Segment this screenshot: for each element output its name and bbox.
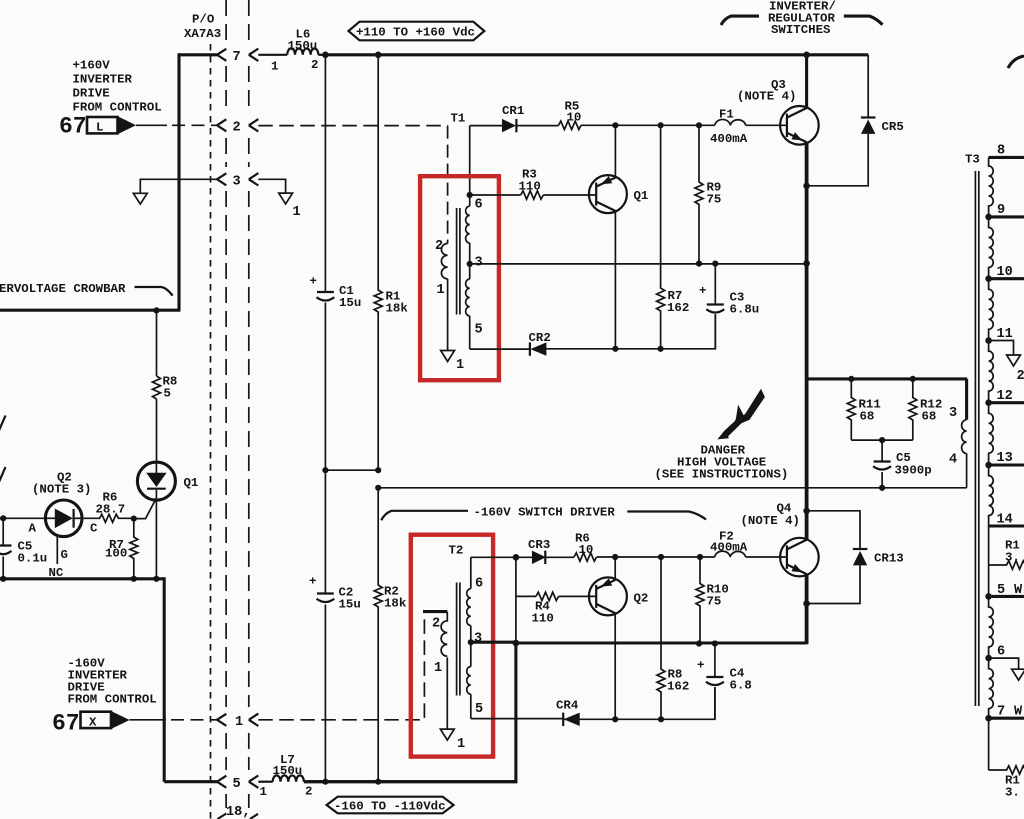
transistor Q4 xyxy=(741,502,819,577)
resistor R11 68 xyxy=(847,379,881,440)
svg-text:15u: 15u xyxy=(339,598,361,612)
junction dot R8-162 bottom xyxy=(658,716,664,722)
svg-text:2: 2 xyxy=(432,617,440,632)
diode CR5 xyxy=(861,118,904,135)
wire Q1 collector up xyxy=(614,125,616,178)
svg-text:1: 1 xyxy=(434,661,442,676)
svg-text:2: 2 xyxy=(1017,369,1024,384)
svg-text:(SEE INSTRUCTIONS): (SEE INSTRUCTIONS) xyxy=(655,468,789,482)
pin 7 bracket and arrow xyxy=(217,49,258,65)
wire row y263.6 xyxy=(470,263,807,265)
junction dot T2 pin3 xyxy=(468,639,474,645)
connector center dashed line xyxy=(210,44,212,819)
wire F2 to Q4 base xyxy=(746,556,787,558)
wire CR3anode down to row643 xyxy=(515,596,517,643)
svg-text:+: + xyxy=(699,284,706,298)
wire Q1 emitter down xyxy=(614,211,616,349)
T3 pin 8 wire xyxy=(989,144,1024,159)
wire Q3 collector up xyxy=(805,55,808,109)
svg-text:1: 1 xyxy=(457,737,465,752)
fuse F2 400mA xyxy=(710,530,748,558)
pin 5 bracket and arrow xyxy=(217,776,258,793)
connector right column dashed xyxy=(248,0,250,808)
T2 core xyxy=(457,583,460,696)
pin 3 wire right to ground xyxy=(258,179,285,193)
svg-text:15u: 15u xyxy=(339,296,361,310)
red highlight box T2 xyxy=(411,535,493,757)
svg-text:0.1u: 0.1u xyxy=(18,552,48,566)
junction dot T1 pin6 xyxy=(467,192,473,198)
+160V INVERTER DRIVE FROM CONTROL label xyxy=(73,59,162,115)
corner hook top right xyxy=(1008,56,1024,68)
junction dot Q1 top xyxy=(612,122,618,128)
svg-text:ERVOLTAGE CROWBAR: ERVOLTAGE CROWBAR xyxy=(0,282,126,296)
T3 right winding 10-11 xyxy=(989,279,994,341)
svg-text:150u: 150u xyxy=(288,39,318,53)
junction dot R8-162 top xyxy=(658,554,664,560)
svg-text:3: 3 xyxy=(474,632,482,647)
wire Q1 cathode down to row 579 xyxy=(155,499,157,579)
wire diagonal R6 junction to Q1 xyxy=(134,499,156,519)
wire row y579 xyxy=(0,577,164,580)
T3 pin 13 wire xyxy=(985,451,1024,468)
svg-text:6: 6 xyxy=(475,577,483,592)
T3 pin 10 wire xyxy=(985,265,1024,282)
svg-text:7: 7 xyxy=(997,705,1005,720)
junction dot CR3 anode xyxy=(513,554,520,561)
svg-text:CR13: CR13 xyxy=(874,552,904,566)
svg-text:110: 110 xyxy=(519,180,541,194)
wire CR3anode to R4 xyxy=(516,557,536,596)
junction dot bridge left xyxy=(322,467,328,473)
svg-text:X: X xyxy=(89,715,97,729)
svg-text:1: 1 xyxy=(456,358,464,373)
svg-text:T1: T1 xyxy=(451,112,466,126)
wire CR5 to Q3 emitter xyxy=(807,134,869,186)
resistor R13 bottom partial xyxy=(989,766,1024,800)
T2 secondary winding 6-3 xyxy=(467,589,471,626)
resistor R6 28.7 xyxy=(82,491,134,523)
svg-text:3.: 3. xyxy=(1005,786,1020,800)
header -160V SWITCH DRIVER xyxy=(381,506,706,521)
T2 secondary bottom lead xyxy=(470,694,472,718)
svg-text:10: 10 xyxy=(997,265,1013,280)
T3 pin 5 wire xyxy=(985,583,1024,600)
svg-text:W: W xyxy=(1014,583,1023,598)
diode CR3 xyxy=(528,538,550,564)
resistor R12 68 xyxy=(909,379,943,440)
svg-text:12: 12 xyxy=(997,389,1013,404)
svg-text:CR2: CR2 xyxy=(529,331,551,345)
junction dot crowbar R8 xyxy=(153,307,159,313)
junction dot mid rail left xyxy=(375,485,381,491)
svg-text:67: 67 xyxy=(59,114,87,140)
svg-text:CR4: CR4 xyxy=(556,699,579,713)
svg-text:3: 3 xyxy=(475,256,483,271)
wire thick L to pin5 row xyxy=(304,643,516,782)
svg-text:CR5: CR5 xyxy=(882,120,904,134)
T1 secondary top lead xyxy=(469,126,471,195)
resistor R5 10 xyxy=(559,100,582,130)
svg-text:5: 5 xyxy=(475,323,483,338)
svg-text:XA7A3: XA7A3 xyxy=(184,27,221,41)
T3 pin 14 wire xyxy=(989,513,1024,528)
wire x164 to pin 5 bracket xyxy=(164,780,217,783)
ground T3 pin11 xyxy=(1007,355,1024,384)
svg-text:11: 11 xyxy=(997,327,1013,342)
svg-text:1: 1 xyxy=(293,205,301,220)
junction dot L6 out xyxy=(322,52,329,59)
T1 primary winding xyxy=(435,239,448,298)
T3 pin 11 wire to ground xyxy=(985,327,1013,355)
wire Q4 emitter down xyxy=(805,574,809,644)
wire R4 to Q2 base xyxy=(559,595,597,597)
wire left edge to Q2 anode xyxy=(0,517,46,519)
ground left of pin3 xyxy=(133,193,147,204)
T3 right winding 5-6 xyxy=(989,596,994,658)
connector left column dashed xyxy=(225,0,227,808)
T2 primary lead to ground xyxy=(446,657,448,728)
junction dot Q3 collector rail xyxy=(803,52,810,59)
junction dot Q2 emitter row719 xyxy=(612,716,618,722)
svg-text:SWITCHES: SWITCHES xyxy=(771,23,831,37)
wire +rail y54.8 xyxy=(325,53,868,56)
svg-text:P/O: P/O xyxy=(192,13,214,27)
svg-text:10: 10 xyxy=(579,543,594,557)
svg-text:5: 5 xyxy=(164,387,171,401)
svg-text:2: 2 xyxy=(311,58,318,72)
wire dashed pin1 to T2 xyxy=(258,612,424,720)
resistor R8 162 xyxy=(657,557,689,719)
wire pin7 to R13 bottom xyxy=(988,718,990,770)
svg-text:CR3: CR3 xyxy=(528,538,550,552)
svg-text:INVERTER: INVERTER xyxy=(73,73,133,87)
Q2 gate wire NC xyxy=(49,536,68,580)
svg-text:+: + xyxy=(697,659,704,673)
wire dashed pin2 to T1 xyxy=(258,125,447,127)
wire R8 branch vertical x156 xyxy=(156,310,158,376)
wire Q2 emitter down xyxy=(614,613,616,719)
svg-text:CR1: CR1 xyxy=(502,104,524,118)
ground T1 primary xyxy=(441,351,464,374)
svg-text:3900p: 3900p xyxy=(895,464,932,478)
svg-text:1: 1 xyxy=(260,785,267,799)
junction dot Q1 row579 xyxy=(153,576,159,582)
junction dot R1 top xyxy=(375,52,382,59)
resistor R1 18k xyxy=(374,55,408,470)
inductor L7 150u xyxy=(258,753,517,799)
resistor R7 162 xyxy=(657,125,690,348)
capacitor C1 15u xyxy=(310,275,362,311)
node 67 L input flag xyxy=(59,114,136,140)
svg-text:FROM CONTROL: FROM CONTROL xyxy=(73,101,162,115)
svg-text:162: 162 xyxy=(667,301,689,315)
svg-text:7: 7 xyxy=(233,50,241,65)
danger high voltage text xyxy=(655,444,789,482)
wire F1 to Q3 base xyxy=(746,124,787,126)
junction dot Q3 emitter CR5 xyxy=(803,183,810,190)
svg-text:3: 3 xyxy=(949,406,957,421)
junction dot C4 top xyxy=(712,640,718,646)
inductor L6 150u xyxy=(258,28,325,74)
svg-text:1: 1 xyxy=(437,283,445,298)
diode CR13 xyxy=(853,549,904,566)
svg-text:28.7: 28.7 xyxy=(96,503,126,517)
T1 primary lead to ground xyxy=(447,279,449,350)
wire mid rail y488 xyxy=(378,487,966,489)
T3 pin 12 wire xyxy=(985,389,1024,406)
junction dot T1 pin3 xyxy=(467,261,473,267)
wire pin14 link down xyxy=(988,526,990,596)
capacitor C5 3900p xyxy=(873,440,932,488)
junction dot R10 top xyxy=(697,554,703,560)
T1 secondary bottom lead xyxy=(469,316,471,349)
T3 right winding 13-14 xyxy=(989,465,994,526)
T3 pin 7 wire xyxy=(985,705,1024,722)
svg-text:6.8u: 6.8u xyxy=(730,303,760,317)
wire CR1 to R5 xyxy=(516,125,558,127)
T3 right winding 8-9 xyxy=(989,157,994,217)
svg-text:13: 13 xyxy=(997,451,1013,466)
wire T1 pin6 to R3 xyxy=(470,194,521,196)
svg-text:400mA: 400mA xyxy=(710,541,748,555)
slash wire stub lower left xyxy=(0,467,6,482)
resistor R6 10 xyxy=(574,532,597,562)
svg-text:110: 110 xyxy=(532,612,554,626)
junction dot C2 line bottom xyxy=(322,779,328,785)
flag -160 TO -110Vdc xyxy=(327,797,454,814)
svg-text:G: G xyxy=(61,548,68,562)
svg-text:3: 3 xyxy=(233,175,241,190)
resistor R7 100 xyxy=(105,519,138,579)
T3 pin 9 wire xyxy=(985,203,1024,220)
junction dot Q2 top xyxy=(612,554,618,560)
svg-text:1: 1 xyxy=(271,60,278,74)
danger lightning bolt xyxy=(717,389,765,440)
svg-text:DRIVE: DRIVE xyxy=(73,87,110,101)
wire C1 C2 line x325 xyxy=(324,55,326,782)
svg-text:L: L xyxy=(96,121,103,135)
svg-text:2: 2 xyxy=(305,785,312,799)
junction dot R11 top xyxy=(848,376,854,382)
ground right of pin3 xyxy=(279,193,293,204)
svg-text:68: 68 xyxy=(860,410,875,424)
wire crowbar row y310 xyxy=(0,309,180,312)
wire vertical x164 to pin5 xyxy=(163,577,166,781)
T3 right winding 11-12 xyxy=(989,341,994,403)
diode CR4 xyxy=(556,699,580,727)
wire CR13 to Q4 emitter xyxy=(807,565,860,603)
svg-text:8: 8 xyxy=(997,144,1005,159)
wire R3 to Q1 base xyxy=(543,194,596,196)
svg-text:18,: 18, xyxy=(226,805,250,819)
transistor Q3 xyxy=(737,78,819,145)
wire dashed 67L to pin 2 xyxy=(136,124,167,126)
wire bridge row y470 xyxy=(325,469,378,471)
red highlight box T1 xyxy=(420,176,499,380)
svg-text:T3: T3 xyxy=(965,153,980,167)
capacitor C2 15u xyxy=(309,575,361,612)
svg-text:6: 6 xyxy=(475,198,483,213)
resistor R3 110 xyxy=(519,168,544,200)
wire snubber row y440 xyxy=(851,439,913,441)
svg-text:4: 4 xyxy=(949,453,957,468)
svg-text:67: 67 xyxy=(52,711,80,737)
svg-text:75: 75 xyxy=(707,595,722,609)
svg-text:68: 68 xyxy=(922,410,937,424)
T1 primary dashed feed xyxy=(447,126,449,244)
svg-text:(NOTE 4): (NOTE 4) xyxy=(737,90,797,104)
diode CR2 xyxy=(529,331,551,356)
junction dot C3 top xyxy=(712,261,718,267)
ground T2 primary xyxy=(440,729,465,752)
junction dot R7-162 bottom xyxy=(658,346,664,352)
resistor R13 top partial xyxy=(989,539,1024,570)
svg-text:9: 9 xyxy=(997,203,1005,218)
svg-text:W: W xyxy=(1014,705,1023,720)
T2 secondary winding 3-5 xyxy=(467,626,471,695)
svg-text:FROM CONTROL: FROM CONTROL xyxy=(68,693,157,707)
ground T3 pin6 xyxy=(1012,669,1024,680)
SCR Q2 xyxy=(29,500,99,537)
svg-text:5: 5 xyxy=(475,702,483,717)
wire Q2 collector up xyxy=(614,557,616,580)
wire Q4 collector up xyxy=(805,379,809,540)
-160V INVERTER DRIVE FROM CONTROL label xyxy=(68,657,157,707)
svg-text:3.: 3. xyxy=(1005,551,1020,565)
svg-text:A: A xyxy=(29,522,37,536)
svg-text:2: 2 xyxy=(435,239,443,254)
T3 pin 6 wire to ground xyxy=(985,645,1018,669)
svg-text:6.8: 6.8 xyxy=(730,679,752,693)
resistor R9 75 xyxy=(695,125,721,263)
junction dot C5 row579 xyxy=(0,576,6,582)
svg-text:5: 5 xyxy=(233,777,241,792)
wire CR3 to R6 xyxy=(545,556,574,558)
pin 18 partial bracket at bottom edge xyxy=(218,805,259,819)
svg-text:T2: T2 xyxy=(449,544,464,558)
svg-text:+160V: +160V xyxy=(73,59,111,73)
transistor Q2 xyxy=(589,577,648,615)
capacitor C4 6.8 xyxy=(697,644,752,719)
svg-text:162: 162 xyxy=(667,680,689,694)
T3 right winding 6-7 xyxy=(989,658,994,718)
junction dot bridge right xyxy=(375,467,381,473)
wire CR4 row y719 xyxy=(471,687,715,719)
T2 primary top jog xyxy=(423,610,447,613)
junction dot R7-162 top xyxy=(658,122,664,128)
junction dot R9 top xyxy=(696,122,702,128)
Q2 labels xyxy=(32,471,92,497)
svg-text:5: 5 xyxy=(997,583,1005,598)
junction dot CR13 top branch xyxy=(803,508,810,515)
fuse F1 400mA xyxy=(710,108,748,147)
diode CR1 xyxy=(502,104,524,132)
header INVERTER REGULATOR SWITCHES xyxy=(721,0,883,37)
svg-text:18k: 18k xyxy=(384,597,407,611)
slash wire stub upper left xyxy=(0,416,6,431)
svg-text:(NOTE 3): (NOTE 3) xyxy=(32,483,92,497)
connector P/O XA7A3 label xyxy=(184,13,221,42)
capacitor C3 6.8u xyxy=(699,264,759,349)
svg-text:-160V SWITCH DRIVER: -160V SWITCH DRIVER xyxy=(474,506,616,520)
node 67 X input flag xyxy=(52,711,130,737)
svg-text:14: 14 xyxy=(997,513,1013,528)
capacitor C5 0.1u xyxy=(0,518,47,579)
resistor R4 110 xyxy=(532,592,559,625)
resistor R2 18k xyxy=(374,488,407,782)
pin 3 bracket and arrow xyxy=(217,173,258,189)
svg-text:Q1: Q1 xyxy=(634,189,649,203)
pin 1 bracket and arrow xyxy=(217,714,258,730)
junction dot R2 bottom xyxy=(375,779,381,785)
svg-text:F1: F1 xyxy=(719,108,734,122)
svg-text:100: 100 xyxy=(105,547,127,561)
wire CR13 branch xyxy=(807,511,860,549)
junction dot row263 Q3line xyxy=(803,260,810,267)
junction dot R9 bottom xyxy=(696,261,702,267)
svg-text:75: 75 xyxy=(707,193,722,207)
junction dot Q4 emitter CR13 xyxy=(803,600,810,607)
junction dot R12 top xyxy=(910,376,916,382)
wire drive row y557 xyxy=(597,556,715,558)
junction dot C5b top xyxy=(879,437,885,443)
wire R8 to Q1 xyxy=(156,399,158,462)
svg-text:18k: 18k xyxy=(386,302,409,316)
T1 secondary winding 6-3 xyxy=(466,195,470,243)
wire Q3 emitter down xyxy=(805,142,809,379)
junction dot row643 left xyxy=(513,640,520,647)
wire left vertical x179 xyxy=(177,53,180,310)
junction dot left C5 xyxy=(0,515,6,521)
wire pin 7 to left vertical xyxy=(179,53,217,56)
junction dot R7 row579 xyxy=(131,576,137,582)
svg-text:-160 TO -110Vdc: -160 TO -110Vdc xyxy=(334,800,446,814)
pin 2 bracket and arrow xyxy=(217,119,258,135)
T3 core xyxy=(975,171,978,706)
T3 left winding 3-4 xyxy=(949,379,967,488)
wire T2 top to CR3 junction xyxy=(471,556,532,558)
svg-text:1: 1 xyxy=(235,715,243,730)
junction dot R6 R7 xyxy=(131,516,137,522)
flag +110 TO +160 Vdc xyxy=(349,22,485,41)
T1 core xyxy=(457,208,460,315)
junction dot C5b bottom xyxy=(879,485,885,491)
wire row y643 xyxy=(471,641,807,645)
T2 secondary top lead xyxy=(470,557,472,588)
pin 3 wire left to ground xyxy=(140,179,217,193)
svg-text:(NOTE 4): (NOTE 4) xyxy=(741,514,801,528)
svg-text:C: C xyxy=(90,522,98,536)
resistor R8 xyxy=(153,375,178,401)
wire dashed 67X to pin 1 xyxy=(130,719,167,721)
svg-text:Q1: Q1 xyxy=(184,476,199,490)
crowbar label pointer xyxy=(135,287,173,296)
T2 primary winding xyxy=(432,612,447,676)
junction dot Q1 emitter row349 xyxy=(612,346,618,352)
transistor Q1 xyxy=(589,175,648,213)
wire base row y125 xyxy=(581,124,715,126)
T3 right winding 9-10 xyxy=(989,217,994,279)
wire T1 top to CR1 xyxy=(470,125,502,127)
wire output row y378.9 xyxy=(807,377,968,380)
T3 right winding 12-13 xyxy=(989,403,994,465)
svg-text:10: 10 xyxy=(567,111,582,125)
wire CR5 branch from rail xyxy=(867,55,869,118)
svg-text:6: 6 xyxy=(997,645,1005,660)
svg-text:+: + xyxy=(309,575,316,589)
svg-text:400mA: 400mA xyxy=(710,132,748,146)
